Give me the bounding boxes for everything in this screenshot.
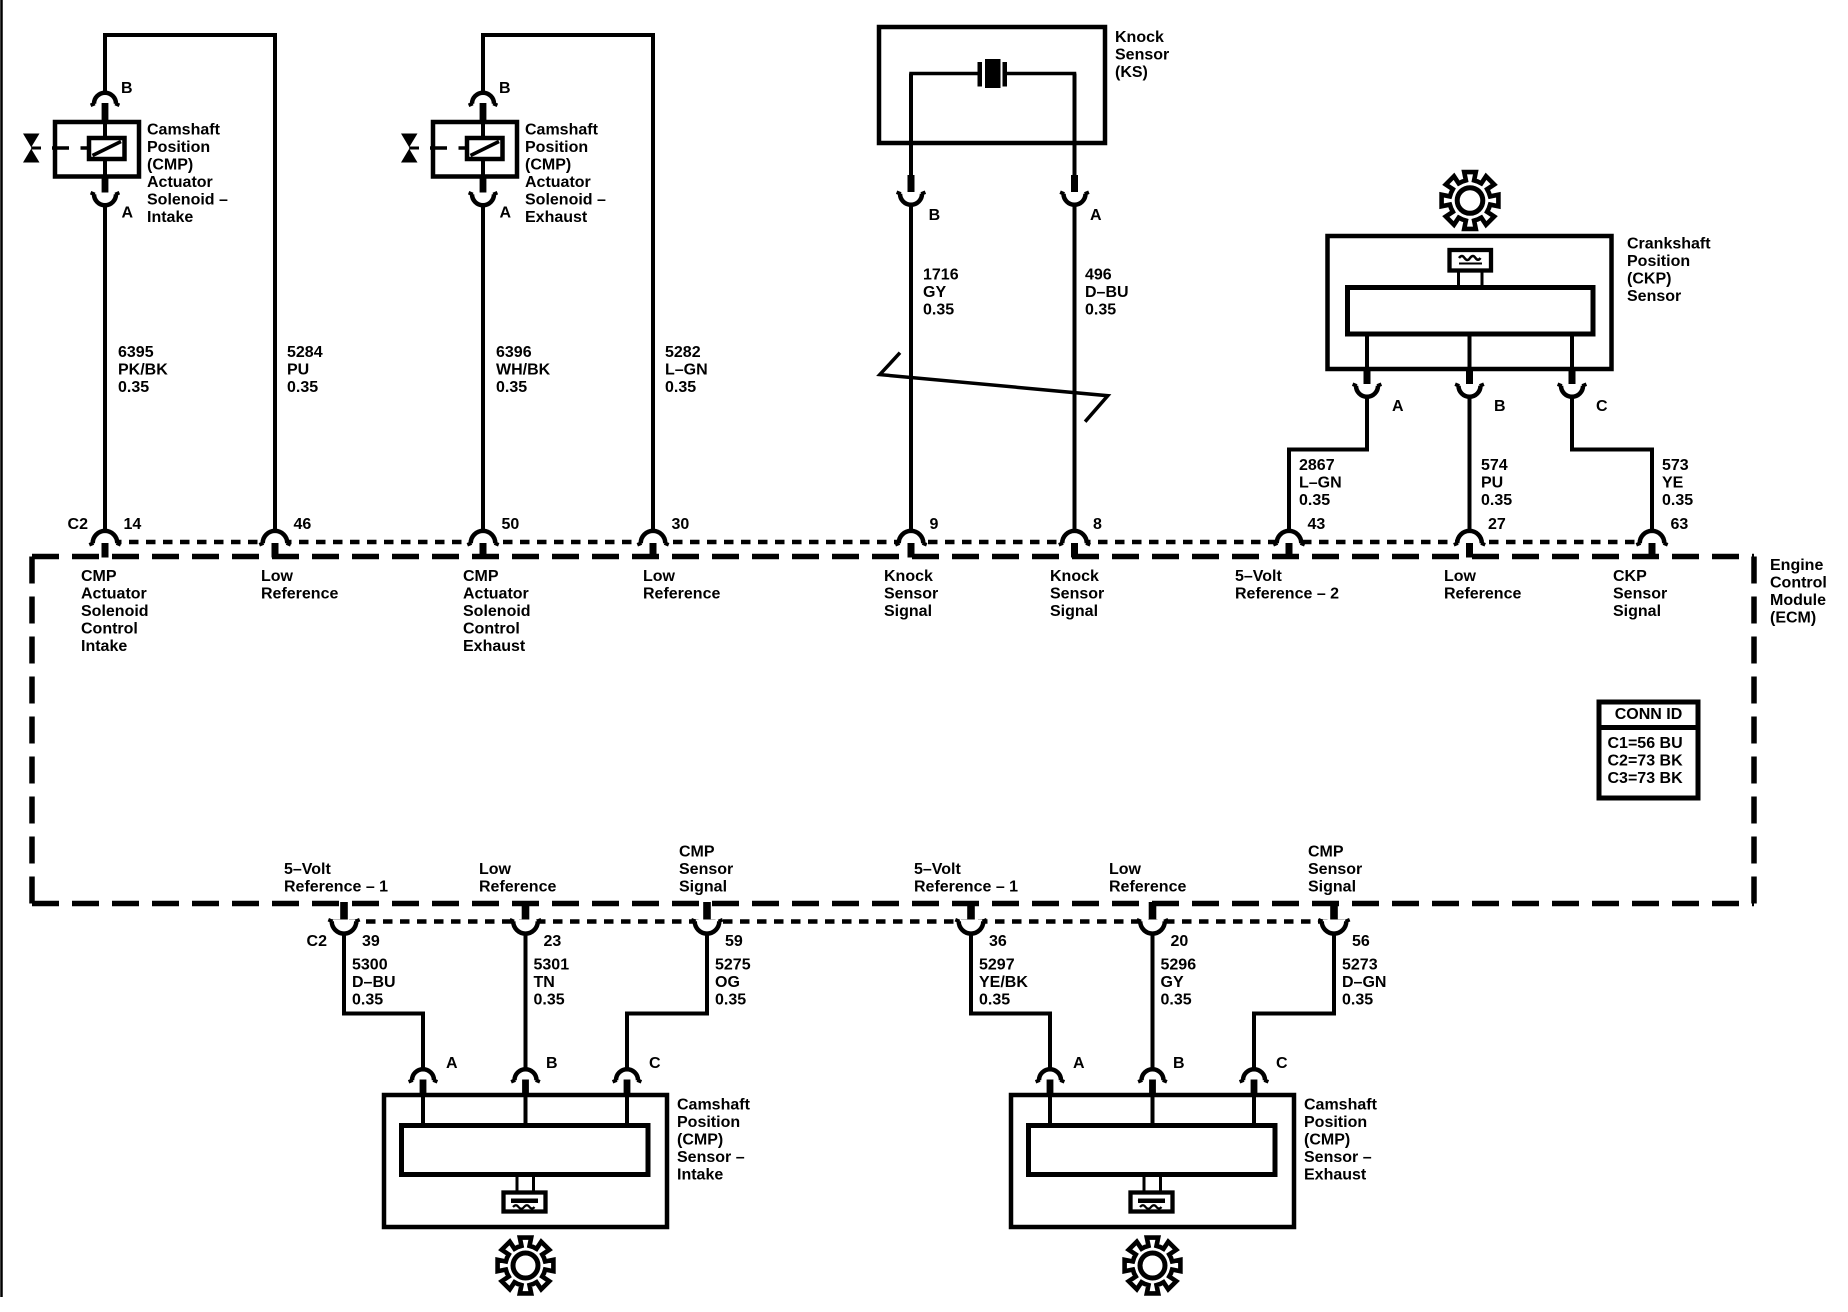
- pin number 46: [294, 516, 312, 533]
- CONN ID table: [1599, 702, 1698, 798]
- pin letter A: [1090, 207, 1102, 224]
- svg-text:5284PU0.35: 5284PU0.35: [287, 344, 323, 396]
- ECM connector cup pin 30: [637, 531, 668, 545]
- ECM function label Knock Sensor Signal: [1050, 568, 1104, 620]
- terminal solenoid intake pin A: [102, 177, 109, 195]
- label crankshaft position sensor: [1627, 236, 1711, 306]
- solenoid intake dashed actuation link: [52, 146, 89, 150]
- wire 5296 ECM pin 20 to CMP exhaust B: [1151, 926, 1155, 1076]
- ECM connector cup pin 50: [467, 531, 498, 545]
- ECM connector cup pin 36: [955, 920, 986, 934]
- pin letter C: [1596, 398, 1608, 415]
- CMP actuator solenoid exhaust box: [433, 122, 517, 177]
- ECM function label 5–Volt Reference – 2: [1235, 568, 1339, 603]
- ECM terminal pin 8: [1071, 543, 1078, 558]
- ECM terminal pin 30: [650, 543, 657, 558]
- ECM function label Knock Sensor Signal: [884, 568, 938, 620]
- ECM connector cup pin 14: [89, 531, 120, 545]
- svg-text:574PU0.35: 574PU0.35: [1481, 457, 1512, 509]
- svg-text:36: 36: [989, 933, 1007, 950]
- connector cup solenoid exhaust pin B: [469, 93, 498, 106]
- ECM function label Low Reference: [261, 568, 338, 603]
- ECM terminal pin 20: [1149, 902, 1157, 921]
- terminal CKP pin B: [1466, 367, 1473, 386]
- svg-text:CamshaftPosition(CMP)ActuatorS: CamshaftPosition(CMP)ActuatorSolenoid –I…: [147, 122, 228, 227]
- svg-text:C2: C2: [307, 933, 328, 950]
- connector label C2 (bottom): [307, 933, 328, 950]
- terminal solenoid exhaust pin B: [480, 103, 487, 123]
- solenoid intake coil lead top: [103, 124, 107, 140]
- svg-text:CMPActuatorSolenoidControlInta: CMPActuatorSolenoidControlIntake: [81, 568, 149, 655]
- ECM connector cup pin 9: [895, 531, 926, 545]
- svg-text:CMPSensorSignal: CMPSensorSignal: [1308, 844, 1362, 896]
- connector cup CKP pin B: [1455, 384, 1484, 397]
- CMP sensor intake head box: [504, 1193, 546, 1212]
- pin letter A: [122, 205, 134, 222]
- wire 496 knock sensor A to ECM pin 8: [1073, 205, 1077, 538]
- solenoid exhaust coil lead bottom: [481, 157, 485, 175]
- terminal solenoid intake pin B: [102, 103, 109, 123]
- pin letter B: [121, 80, 133, 97]
- svg-text:5275OG0.35: 5275OG0.35: [715, 957, 751, 1009]
- pin letter B: [1494, 398, 1506, 415]
- knock sensor lead B: [909, 74, 913, 177]
- ECM bottom connector dotted line: [332, 919, 1346, 924]
- wire label 5301 TN: [534, 957, 570, 1009]
- CKP sensor lead C: [1570, 332, 1574, 368]
- connector cup CMP sensor exhaust pin C: [1240, 1069, 1269, 1082]
- svg-text:CKPSensorSignal: CKPSensorSignal: [1613, 568, 1667, 620]
- svg-text:CrankshaftPosition(CKP)Sensor: CrankshaftPosition(CKP)Sensor: [1627, 236, 1711, 306]
- CMP sensor intake lead C: [625, 1097, 629, 1127]
- wire CMP exhaust solenoid loop (pin B to top to pin 30): [483, 35, 653, 538]
- pin number 50: [502, 516, 520, 533]
- ECM connector cup pin 46: [259, 531, 290, 545]
- CKP sensor head box: [1450, 250, 1492, 271]
- svg-text:B: B: [1494, 398, 1506, 415]
- wire label 5282 L–GN: [665, 344, 708, 396]
- svg-text:B: B: [546, 1055, 558, 1072]
- svg-text:A: A: [1073, 1055, 1085, 1072]
- wire label 6395 PK/BK: [118, 344, 168, 396]
- CMP sensor intake lead A: [421, 1097, 425, 1127]
- connector cup solenoid exhaust pin A: [469, 193, 498, 206]
- CKP sensor gear icon: [1442, 172, 1499, 229]
- svg-text:B: B: [121, 80, 133, 97]
- svg-text:1716GY0.35: 1716GY0.35: [923, 267, 959, 319]
- pin letter A: [446, 1055, 458, 1072]
- wire 6396 solenoid A to ECM pin 50: [481, 204, 485, 538]
- svg-text:14: 14: [124, 516, 142, 533]
- connector cup knock sensor pin A: [1060, 192, 1089, 205]
- pin letter C: [1276, 1055, 1288, 1072]
- terminal CMP sensor exhaust pin C: [1251, 1080, 1258, 1098]
- ECM terminal pin 59: [703, 902, 711, 921]
- CKP sensor element: [1348, 288, 1594, 335]
- svg-text:LowReference: LowReference: [1444, 568, 1521, 603]
- wire 574 CKP B to ECM pin 27: [1468, 396, 1472, 538]
- svg-text:59: 59: [725, 933, 743, 950]
- terminal CKP pin C: [1569, 367, 1576, 386]
- wire 573 CKP C to ECM pin 63: [1572, 396, 1652, 538]
- connector cup CMP sensor intake pin A: [409, 1069, 438, 1082]
- ECM terminal pin 39: [340, 902, 348, 921]
- svg-text:LowReference: LowReference: [261, 568, 338, 603]
- ECM terminal pin 23: [522, 902, 530, 921]
- CMP sensor exhaust lead B: [1151, 1097, 1155, 1127]
- ECM dashed border right: [1751, 557, 1757, 904]
- pin letter B: [546, 1055, 558, 1072]
- svg-text:LowReference: LowReference: [1109, 861, 1186, 896]
- label camshaft position sensor exhaust: [1304, 1097, 1378, 1184]
- svg-text:5300D–BU0.35: 5300D–BU0.35: [352, 957, 396, 1009]
- pin number 9: [930, 516, 939, 533]
- connector cup CMP sensor intake pin C: [613, 1069, 642, 1082]
- svg-text:KnockSensor(KS): KnockSensor(KS): [1115, 29, 1169, 81]
- solenoid exhaust dashed actuation link: [430, 146, 467, 150]
- terminal CMP sensor intake pin A: [420, 1080, 427, 1098]
- CMP sensor exhaust head legs: [1144, 1175, 1161, 1194]
- wire 5297 ECM pin 36 to CMP exhaust A: [971, 926, 1050, 1076]
- ECM terminal pin 50: [480, 543, 487, 558]
- CMP sensor exhaust element: [1029, 1126, 1276, 1175]
- svg-text:A: A: [1090, 207, 1102, 224]
- connector cup solenoid intake pin B: [91, 93, 120, 106]
- svg-text:2867L–GN0.35: 2867L–GN0.35: [1299, 457, 1342, 509]
- ECM function label CMP Sensor Signal: [679, 844, 733, 896]
- CMP sensor exhaust lead A: [1048, 1097, 1052, 1127]
- svg-text:B: B: [929, 207, 941, 224]
- wire 5301 ECM pin 23 to CMP intake B: [524, 926, 528, 1076]
- svg-text:CMPSensorSignal: CMPSensorSignal: [679, 844, 733, 896]
- CMP sensor exhaust box: [1011, 1095, 1294, 1227]
- svg-text:5296GY0.35: 5296GY0.35: [1161, 957, 1197, 1009]
- ECM function label CMP Sensor Signal: [1308, 844, 1362, 896]
- svg-text:CamshaftPosition(CMP)ActuatorS: CamshaftPosition(CMP)ActuatorSolenoid –E…: [525, 122, 606, 227]
- terminal CMP sensor exhaust pin B: [1149, 1080, 1156, 1098]
- svg-text:56: 56: [1352, 933, 1370, 950]
- wire 5300 ECM pin 39 to CMP intake A: [344, 926, 423, 1076]
- wire 5275 ECM pin 59 to CMP intake C: [627, 926, 707, 1076]
- ECM terminal pin 56: [1330, 902, 1338, 921]
- ECM function label Low Reference: [1444, 568, 1521, 603]
- wire label 5275 OG: [715, 957, 751, 1009]
- svg-text:A: A: [446, 1055, 458, 1072]
- svg-text:6395PK/BK0.35: 6395PK/BK0.35: [118, 344, 168, 396]
- pin number 56: [1352, 933, 1370, 950]
- svg-text:B: B: [1173, 1055, 1185, 1072]
- wire 5273 ECM pin 56 to CMP exhaust C: [1254, 926, 1334, 1076]
- CKP sensor lead B: [1468, 332, 1472, 368]
- ECM connector cup pin 39: [328, 920, 359, 934]
- svg-text:C: C: [1596, 398, 1608, 415]
- svg-text:C1=56 BUC2=73 BKC3=73 BK: C1=56 BUC2=73 BKC3=73 BK: [1608, 735, 1684, 787]
- pin letter C: [649, 1055, 661, 1072]
- terminal CMP sensor intake pin C: [624, 1080, 631, 1098]
- wire label 6396 WH/BK: [496, 344, 551, 396]
- ECM connector cup pin 59: [691, 920, 722, 934]
- label knock sensor: [1115, 29, 1169, 81]
- CMP sensor intake head legs: [517, 1175, 534, 1194]
- connector cup solenoid intake pin A: [91, 193, 120, 206]
- svg-text:LowReference: LowReference: [479, 861, 556, 896]
- CONN ID rows: [1608, 735, 1684, 787]
- pin number 39: [362, 933, 380, 950]
- CKP sensor lead A: [1365, 332, 1369, 368]
- solenoid intake valve symbol: [23, 134, 41, 163]
- ECM terminal pin 46: [272, 543, 279, 558]
- ECM function label Low Reference: [643, 568, 720, 603]
- knock sensor box: [879, 27, 1105, 143]
- svg-text:39: 39: [362, 933, 380, 950]
- ECM function label CKP Sensor Signal: [1613, 568, 1667, 620]
- connector cup CMP sensor exhaust pin B: [1138, 1069, 1167, 1082]
- svg-text:A: A: [122, 205, 134, 222]
- CMP sensor intake lead B: [524, 1097, 528, 1127]
- svg-text:5273D–GN0.35: 5273D–GN0.35: [1342, 957, 1386, 1009]
- svg-text:496D–BU0.35: 496D–BU0.35: [1085, 267, 1129, 319]
- terminal knock sensor pin B: [908, 175, 915, 194]
- pin letter A: [1392, 398, 1404, 415]
- wire label 5300 D–BU: [352, 957, 396, 1009]
- CMP sensor exhaust gear icon: [1125, 1238, 1181, 1294]
- svg-text:CONN ID: CONN ID: [1615, 706, 1683, 723]
- svg-text:5–VoltReference – 1: 5–VoltReference – 1: [284, 861, 388, 896]
- svg-text:5301TN0.35: 5301TN0.35: [534, 957, 570, 1009]
- terminal CMP sensor intake pin B: [522, 1080, 529, 1098]
- knock sensor piezo element: [978, 59, 1008, 88]
- ECM dashed border left: [29, 557, 35, 904]
- CMP sensor exhaust head box: [1131, 1193, 1173, 1212]
- twisted pair symbol on knock sensor wires: [880, 353, 1108, 422]
- CMP sensor intake box: [384, 1095, 667, 1227]
- solenoid intake coil: [89, 138, 125, 159]
- svg-text:LowReference: LowReference: [643, 568, 720, 603]
- label engine control module: [1770, 557, 1827, 627]
- knock sensor internal wiring: [911, 74, 1075, 87]
- wire 1716 knock sensor B to ECM pin 9: [909, 205, 913, 538]
- solenoid exhaust valve symbol: [401, 134, 419, 163]
- wire label 5284 PU: [287, 344, 323, 396]
- solenoid exhaust coil: [467, 138, 503, 159]
- terminal knock sensor pin A: [1071, 175, 1078, 194]
- pin number 59: [725, 933, 743, 950]
- ECM function label 5–Volt Reference – 1: [284, 861, 388, 896]
- wire CMP intake solenoid loop (pin B to top to Low Reference pin 46): [105, 35, 275, 538]
- svg-text:23: 23: [544, 933, 562, 950]
- svg-text:C: C: [1276, 1055, 1288, 1072]
- ECM function label 5–Volt Reference – 1: [914, 861, 1018, 896]
- svg-text:50: 50: [502, 516, 520, 533]
- page left border: [0, 0, 3, 1297]
- svg-text:30: 30: [672, 516, 690, 533]
- pin number 27: [1488, 516, 1506, 533]
- CMP sensor intake gear icon: [498, 1238, 554, 1294]
- ECM connector cup pin 63: [1636, 531, 1667, 545]
- ECM connector cup pin 27: [1454, 531, 1485, 545]
- wire label 496 D–BU: [1085, 267, 1129, 319]
- pin letter A: [1073, 1055, 1085, 1072]
- label camshaft position actuator solenoid intake: [147, 122, 228, 227]
- pin letter A: [500, 205, 512, 222]
- wire 6395 solenoid A to ECM pin 14: [103, 204, 107, 538]
- connector cup CKP pin C: [1558, 384, 1587, 397]
- pin number 8: [1093, 516, 1102, 533]
- svg-text:CMPActuatorSolenoidControlExha: CMPActuatorSolenoidControlExhaust: [463, 568, 531, 655]
- svg-text:8: 8: [1093, 516, 1102, 533]
- svg-text:A: A: [500, 205, 512, 222]
- ECM terminal pin 43: [1286, 543, 1293, 558]
- svg-text:CamshaftPosition(CMP)Sensor –E: CamshaftPosition(CMP)Sensor –Exhaust: [1304, 1097, 1378, 1184]
- svg-text:27: 27: [1488, 516, 1506, 533]
- ECM dashed border top: [32, 554, 1754, 560]
- ECM terminal pin 63: [1649, 543, 1656, 558]
- connector cup CMP sensor exhaust pin A: [1036, 1069, 1065, 1082]
- terminal solenoid exhaust pin A: [480, 177, 487, 195]
- wire label 2867 L–GN: [1299, 457, 1342, 509]
- wire label 5273 D–GN: [1342, 957, 1386, 1009]
- svg-text:B: B: [499, 80, 511, 97]
- ECM dashed border bottom: [32, 901, 1754, 907]
- connector cup knock sensor pin B: [897, 192, 926, 205]
- label camshaft position actuator solenoid exhaust: [525, 122, 606, 227]
- ECM terminal pin 36: [967, 902, 975, 921]
- CMP sensor intake element: [402, 1126, 649, 1175]
- ECM top connector dotted line: [95, 540, 1663, 545]
- knock sensor lead A: [1073, 74, 1077, 177]
- pin number 43: [1308, 516, 1326, 533]
- ECM function label CMP Actuator Solenoid Control Intake: [81, 568, 149, 655]
- label camshaft position sensor intake: [677, 1097, 751, 1184]
- CMP actuator solenoid intake box: [55, 122, 139, 177]
- CMP sensor exhaust lead C: [1252, 1097, 1256, 1127]
- ECM connector cup pin 20: [1137, 920, 1168, 934]
- ECM connector cup pin 8: [1059, 531, 1090, 545]
- solenoid exhaust coil lead top: [481, 124, 485, 140]
- svg-text:43: 43: [1308, 516, 1326, 533]
- connector cup CKP pin A: [1353, 384, 1382, 397]
- pin letter B: [929, 207, 941, 224]
- ECM function label Low Reference: [479, 861, 556, 896]
- svg-text:5–VoltReference – 2: 5–VoltReference – 2: [1235, 568, 1339, 603]
- svg-text:9: 9: [930, 516, 939, 533]
- connector label C2 (top): [68, 516, 89, 533]
- ECM function label CMP Actuator Solenoid Control Exhaust: [463, 568, 531, 655]
- terminal CMP sensor exhaust pin A: [1047, 1080, 1054, 1098]
- svg-text:CamshaftPosition(CMP)Sensor –I: CamshaftPosition(CMP)Sensor –Intake: [677, 1097, 751, 1184]
- ECM connector cup pin 43: [1273, 531, 1304, 545]
- svg-text:46: 46: [294, 516, 312, 533]
- solenoid intake coil lead bottom: [103, 157, 107, 175]
- pin number 30: [672, 516, 690, 533]
- pin number 36: [989, 933, 1007, 950]
- svg-text:C: C: [649, 1055, 661, 1072]
- svg-text:KnockSensorSignal: KnockSensorSignal: [884, 568, 938, 620]
- CKP sensor head legs: [1459, 271, 1483, 290]
- pin number 23: [544, 933, 562, 950]
- pin number 63: [1671, 516, 1689, 533]
- ECM connector cup pin 56: [1318, 920, 1349, 934]
- svg-text:5–VoltReference – 1: 5–VoltReference – 1: [914, 861, 1018, 896]
- wire label 5296 GY: [1161, 957, 1197, 1009]
- wire label 1716 GY: [923, 267, 959, 319]
- svg-text:EngineControlModule(ECM): EngineControlModule(ECM): [1770, 557, 1827, 627]
- svg-text:C2: C2: [68, 516, 89, 533]
- svg-text:KnockSensorSignal: KnockSensorSignal: [1050, 568, 1104, 620]
- wire label 573 YE: [1662, 457, 1693, 509]
- CONN ID title: [1615, 706, 1683, 723]
- connector cup CMP sensor intake pin B: [511, 1069, 540, 1082]
- wire label 574 PU: [1481, 457, 1512, 509]
- wire 2867 CKP A to ECM pin 43: [1289, 396, 1367, 538]
- wire label 5297 YE/BK: [979, 957, 1028, 1009]
- svg-text:20: 20: [1171, 933, 1189, 950]
- ECM terminal pin 9: [908, 543, 915, 558]
- svg-text:573YE0.35: 573YE0.35: [1662, 457, 1693, 509]
- ECM connector cup pin 23: [510, 920, 541, 934]
- pin number 20: [1171, 933, 1189, 950]
- ECM terminal pin 14: [102, 543, 109, 558]
- pin letter B: [1173, 1055, 1185, 1072]
- svg-text:A: A: [1392, 398, 1404, 415]
- terminal CKP pin A: [1364, 367, 1371, 386]
- ECM function label Low Reference: [1109, 861, 1186, 896]
- svg-text:63: 63: [1671, 516, 1689, 533]
- svg-text:5297YE/BK0.35: 5297YE/BK0.35: [979, 957, 1028, 1009]
- pin number 14: [124, 516, 142, 533]
- pin letter B: [499, 80, 511, 97]
- svg-text:5282L–GN0.35: 5282L–GN0.35: [665, 344, 708, 396]
- ECM terminal pin 27: [1466, 543, 1473, 558]
- svg-text:6396WH/BK0.35: 6396WH/BK0.35: [496, 344, 551, 396]
- CKP sensor box: [1328, 236, 1612, 369]
